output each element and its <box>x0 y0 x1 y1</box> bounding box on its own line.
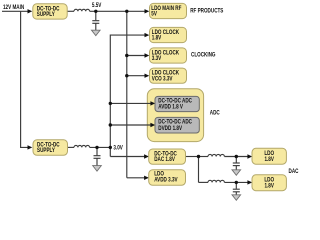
capacitor C3 plates <box>233 162 240 164</box>
capacitor C1 plates <box>92 20 99 22</box>
wire branch to DC-TO-DC ADC DVDD <box>110 124 151 126</box>
svg-text:5.5V: 5.5V <box>92 2 102 9</box>
wire branch 5.5V bus to LDO CLOCK VCO 3.3V <box>127 75 145 77</box>
LDO CLOCK 3.3V <box>150 48 187 63</box>
wire node to L4 <box>199 181 209 183</box>
junction 3.0V node <box>95 146 98 149</box>
svg-text:DAC: DAC <box>289 168 299 175</box>
arrow into LDO MAIN RF <box>145 9 150 13</box>
wire DAC node vertical <box>198 157 200 183</box>
wire 5.5V rail to LDO MAIN RF <box>90 10 145 12</box>
arrow into LDO CLOCK 3.3V <box>145 53 150 57</box>
DC-TO-DC supply U2 <box>33 140 68 156</box>
wire L4 to LDO 1.8V lower <box>224 181 247 183</box>
junction L4 cap node <box>235 181 238 184</box>
arrow into LDO 1.8V upper <box>247 154 252 158</box>
junction riser ADC DVDD <box>109 123 112 126</box>
svg-text:5V: 5V <box>151 11 157 18</box>
svg-text:1.8V: 1.8V <box>264 156 274 163</box>
inductor L4 <box>208 180 224 182</box>
wire DAC dc-dc output to node <box>186 156 199 158</box>
capacitor C4 plates <box>233 188 240 190</box>
wire U2 output lead <box>68 146 75 148</box>
ground G2 <box>93 166 102 172</box>
svg-text:1.8V: 1.8V <box>264 183 274 190</box>
inductor L1 <box>74 9 90 11</box>
LDO MAIN RF 5V <box>150 3 187 18</box>
DC-TO-DC supply U1 <box>33 4 67 19</box>
inductor L2 <box>74 145 90 147</box>
DC-TO-DC DAC 1.8V <box>149 149 186 164</box>
DC-TO-DC ADC DVDD converter <box>155 117 199 133</box>
arrow into LDO 1.8V lower <box>247 180 252 184</box>
wire 5.5V bus vertical <box>126 11 128 178</box>
wire U1 output lead <box>67 10 74 12</box>
arrow into LDO AVDD 3.3V <box>144 176 149 180</box>
wire node to L3 <box>199 156 209 158</box>
capacitor C2 lead <box>96 147 98 155</box>
svg-text:VCO 3.3V: VCO 3.3V <box>152 76 173 83</box>
junction DAC output node <box>197 155 200 158</box>
svg-text:AVDD 1.8 V: AVDD 1.8 V <box>158 104 183 111</box>
svg-text:ADC: ADC <box>210 110 220 117</box>
ground G4 <box>232 195 241 201</box>
svg-text:DVDD 1.8V: DVDD 1.8V <box>158 125 182 132</box>
svg-text:SUPPLY: SUPPLY <box>37 12 55 19</box>
junction riser ADC AVDD <box>109 102 112 105</box>
junction bus clock 3.3 <box>125 54 128 57</box>
wire 3.0V riser to LDO CLOCK 1.8V <box>110 35 145 156</box>
arrow into U1 <box>28 9 33 13</box>
svg-text:DAC 1.8V: DAC 1.8V <box>154 157 175 164</box>
wire branch 5.5V bus to LDO CLOCK 3.3V <box>127 55 145 57</box>
arrow into LDO CLOCK 1.8V <box>145 33 150 37</box>
wire branch to DC-TO-DC ADC AVDD <box>110 102 151 104</box>
arrow into DC-TO-DC ADC AVDD <box>150 101 155 105</box>
wire 12V main horizontal <box>2 10 28 12</box>
ground G1 <box>92 30 101 36</box>
arrow into DC-TO-DC DAC <box>144 154 149 158</box>
capacitor C3 lead <box>235 157 237 163</box>
LDO 1.8V upper <box>252 148 286 164</box>
arrow into U2 <box>28 145 33 149</box>
svg-text:3.3V: 3.3V <box>152 56 162 63</box>
svg-text:AVDD 3.3V: AVDD 3.3V <box>154 177 178 184</box>
arrow into DC-TO-DC ADC DVDD <box>150 123 155 127</box>
junction 5.5V bus top <box>125 10 128 13</box>
svg-text:12V MAIN: 12V MAIN <box>3 4 24 11</box>
junction bus clock vco <box>125 74 128 77</box>
wire 3.0V riser elbow to DC-TO-DC DAC <box>110 156 144 158</box>
arrow into LDO CLOCK VCO 3.3V <box>145 74 150 78</box>
wire 3.0V rail <box>90 146 111 148</box>
wire 5.5V bus elbow to LDO AVDD 3.3V <box>127 177 145 179</box>
svg-text:3.0V: 3.0V <box>113 145 123 152</box>
capacitor C1 lead <box>95 11 97 20</box>
ADC container <box>147 89 203 142</box>
LDO AVDD 3.3V <box>149 170 186 186</box>
svg-text:CLOCKING: CLOCKING <box>191 52 215 59</box>
junction node 5.5V <box>94 10 97 13</box>
ground G3 <box>232 170 241 176</box>
junction L3 cap node <box>235 155 238 158</box>
LDO CLOCK VCO 3.3V <box>150 68 187 83</box>
wire 12V main vertical drop <box>21 11 28 147</box>
svg-text:RF PRODUCTS: RF PRODUCTS <box>190 8 224 15</box>
inductor L3 <box>208 154 224 156</box>
wire L3 to LDO 1.8V upper <box>224 156 247 158</box>
junction 3.0V riser <box>109 146 112 149</box>
svg-text:1.8V: 1.8V <box>152 35 162 42</box>
svg-text:SUPPLY: SUPPLY <box>37 148 55 155</box>
capacitor C4 lead <box>235 182 237 188</box>
DC-TO-DC ADC AVDD converter <box>155 96 199 111</box>
capacitor C2 plates <box>94 155 101 157</box>
LDO 1.8V lower <box>252 175 286 191</box>
LDO CLOCK 1.8V <box>150 27 187 42</box>
